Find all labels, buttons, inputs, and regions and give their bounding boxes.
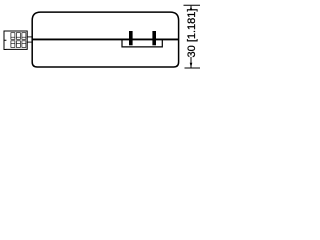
dimension extension line bottom — [185, 67, 201, 69]
mounting slot channel — [122, 39, 162, 47]
connector knurl box row1 a — [11, 33, 15, 40]
screw terminal right — [152, 31, 156, 45]
housing mid parting line — [32, 38, 178, 40]
connector knurl box row1 c — [22, 33, 26, 40]
connector neck bottom line — [27, 41, 32, 43]
connector cable bracket — [4, 31, 6, 50]
connector nut outline — [6, 31, 28, 49]
dimension line top segment with arrow — [190, 6, 192, 10]
connector knurl box row2 c — [22, 41, 26, 48]
connector knurl box row1 b — [16, 33, 20, 40]
connector knurl box row2 b — [16, 41, 20, 48]
svg-text:30 [1.181]: 30 [1.181] — [186, 9, 198, 58]
screw terminal left — [129, 31, 133, 45]
connector neck top line — [27, 36, 32, 38]
dimension extension line top — [184, 4, 201, 6]
dimension line bottom segment with arrow — [190, 57, 192, 68]
housing body outline — [32, 12, 178, 67]
connector knurl box row2 a — [11, 41, 15, 48]
